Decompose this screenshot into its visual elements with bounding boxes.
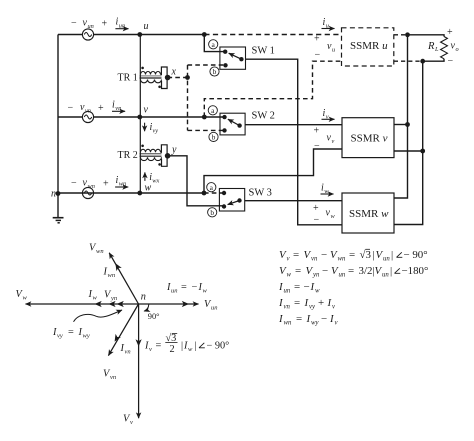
svg-text:−: − <box>322 265 328 277</box>
svg-text:R: R <box>427 41 435 52</box>
svg-text:w: w <box>315 288 320 295</box>
svg-text:√3: √3 <box>360 249 372 261</box>
svg-text:−: − <box>71 18 77 29</box>
transformer TR2 <box>140 117 168 193</box>
svg-text:vn: vn <box>284 304 291 311</box>
svg-text:un: un <box>171 288 178 295</box>
wire SW1 out to SSMR w minus <box>246 59 343 225</box>
svg-text:wx: wx <box>152 178 159 185</box>
svg-text:−180°: −180° <box>402 265 429 277</box>
ac source v_wn <box>82 187 93 198</box>
arrow i_un <box>115 28 128 30</box>
svg-text:n: n <box>141 292 146 303</box>
svg-text:+: + <box>102 19 108 30</box>
wire SSMR v out plus <box>394 124 408 126</box>
svg-text:+: + <box>314 126 320 137</box>
svg-text:un: un <box>88 23 94 30</box>
svg-text:w: w <box>23 295 28 302</box>
phasor labels <box>16 243 230 427</box>
svg-text:−: − <box>314 215 320 226</box>
svg-text:=: = <box>294 297 300 309</box>
eq line 5 <box>278 313 339 327</box>
svg-text:u: u <box>332 47 335 54</box>
wire left bus <box>57 35 59 194</box>
svg-text:L: L <box>434 46 439 53</box>
svg-text:wn: wn <box>88 183 95 190</box>
svg-text:wn: wn <box>108 272 116 279</box>
wire w row dashed stub to SW3 a <box>204 192 224 194</box>
arrowhead I_vn mid <box>112 334 121 343</box>
svg-text:v: v <box>130 419 133 426</box>
svg-text:w: w <box>287 272 292 279</box>
wire tap y to SW3 b <box>168 156 225 206</box>
wire SW3 out to SSMR w plus <box>245 200 342 202</box>
svg-text:SW 1: SW 1 <box>252 46 275 57</box>
svg-text:un: un <box>382 272 389 279</box>
svg-text:|: | <box>390 265 392 277</box>
svg-text:−: − <box>315 50 321 61</box>
resistor R_L load <box>408 35 448 61</box>
arrow i_vn <box>112 110 125 112</box>
svg-text:un: un <box>119 22 125 29</box>
arrowheads I_w and V_yn on left axis <box>95 301 102 307</box>
vector V_w left <box>26 303 139 305</box>
svg-text:un: un <box>284 288 291 295</box>
svg-text:wy: wy <box>311 320 320 327</box>
svg-text:vy: vy <box>57 333 63 340</box>
svg-text:wn: wn <box>338 256 347 263</box>
svg-text:v: v <box>332 138 335 145</box>
svg-text:vn: vn <box>85 107 91 114</box>
SSMR v box <box>342 118 394 158</box>
wire dashed x to SW1 b <box>188 64 226 66</box>
svg-text:wn: wn <box>119 181 126 188</box>
svg-text:TR 2: TR 2 <box>118 150 138 161</box>
svg-text:n: n <box>51 189 56 200</box>
svg-text:vn: vn <box>115 105 121 112</box>
vector V_wn up-left <box>109 253 138 304</box>
svg-text:v: v <box>326 114 329 121</box>
svg-text:SSMR w: SSMR w <box>349 208 389 220</box>
sqrt overbars <box>366 248 371 250</box>
svg-text:− 90°: − 90° <box>404 249 428 261</box>
arrow i_wn <box>115 186 128 188</box>
current arrows <box>112 29 335 195</box>
svg-text:−: − <box>192 282 198 293</box>
svg-text:w: w <box>93 295 98 302</box>
SSMR u box dashed <box>342 28 394 66</box>
wire v row <box>58 116 225 118</box>
wire SW2 out to SSMR v plus <box>245 124 342 126</box>
svg-text:wy: wy <box>83 333 90 340</box>
svg-text:wn: wn <box>96 248 104 255</box>
eq line 1 <box>279 249 428 263</box>
switch SW2 <box>220 113 245 135</box>
svg-text:=: = <box>296 313 302 325</box>
squiggle arrow I_vy <box>74 310 123 322</box>
svg-text:+: + <box>98 103 104 114</box>
vector V_v down <box>138 304 140 418</box>
svg-text:u: u <box>144 21 149 32</box>
svg-text:−: − <box>448 56 454 67</box>
wire w row <box>58 192 204 194</box>
svg-text:+: + <box>447 27 453 38</box>
svg-text:− 90°: − 90° <box>207 341 230 352</box>
SW contact dots <box>223 50 227 54</box>
svg-text:+: + <box>314 34 320 45</box>
svg-text:un: un <box>211 305 218 312</box>
svg-text:un: un <box>339 272 346 279</box>
circuit text labels <box>51 17 459 226</box>
switch SW1 <box>220 47 246 69</box>
svg-text:u: u <box>326 23 329 30</box>
arc 90 deg <box>144 304 149 311</box>
svg-text:|: | <box>373 249 375 261</box>
svg-text:x: x <box>171 67 177 78</box>
TR polarity dots <box>141 67 144 70</box>
wire plus bus vertical <box>394 35 408 198</box>
eq line 2 <box>279 265 428 279</box>
svg-text:yn: yn <box>110 295 117 302</box>
svg-text:TR 1: TR 1 <box>118 72 138 83</box>
svg-text:b: b <box>212 133 216 142</box>
wire tap x dashed <box>168 77 188 79</box>
svg-text:SW 2: SW 2 <box>252 111 275 122</box>
arrowhead I_v mid <box>136 339 142 346</box>
wire u dashed to SSMR u <box>204 34 341 36</box>
SSMR w box <box>342 193 394 233</box>
svg-text:=: = <box>294 281 300 293</box>
svg-text:y: y <box>171 145 177 156</box>
wire u node to SW1 a <box>204 35 225 52</box>
wire SSMR v out minus <box>394 150 423 152</box>
angle symbols eq 1,2 <box>397 252 403 257</box>
svg-text:un: un <box>383 256 390 263</box>
svg-text:+: + <box>103 179 109 190</box>
arrowhead on V_un mid <box>182 301 189 307</box>
svg-text:=: = <box>156 341 162 352</box>
svg-text:SW 3: SW 3 <box>249 188 272 199</box>
svg-text:w: w <box>203 288 208 295</box>
wire dashed SSMR u out plus <box>394 34 408 36</box>
wire dashed x-net vertical <box>187 65 189 130</box>
svg-text:|: | <box>195 341 197 352</box>
svg-text:w: w <box>145 182 152 193</box>
svg-text:vn: vn <box>311 256 318 263</box>
svg-text:v: v <box>149 346 152 353</box>
svg-text:2: 2 <box>170 344 175 355</box>
svg-text:=: = <box>181 282 187 293</box>
wire w node up to SSMR v minus <box>204 149 342 193</box>
svg-text:−: − <box>68 103 74 114</box>
ground <box>53 194 64 223</box>
angle symbol in I_v equation <box>199 343 205 348</box>
svg-text:=: = <box>293 249 299 261</box>
arrow i_w <box>321 193 334 195</box>
ac source v_un <box>82 29 93 40</box>
svg-text:−: − <box>321 249 327 261</box>
wire u row <box>58 34 204 36</box>
vector V_un right <box>139 303 199 305</box>
svg-text:−: − <box>304 281 310 293</box>
label a circled SW1 <box>207 40 219 217</box>
mid arrowheads on phasor lines <box>95 262 190 347</box>
svg-text:vn: vn <box>125 349 131 356</box>
svg-text:wn: wn <box>284 320 293 327</box>
svg-text:=: = <box>295 265 301 277</box>
wire dashed x to SW2 b <box>188 129 225 131</box>
switch SW3 <box>219 189 244 212</box>
svg-text:=: = <box>349 249 355 261</box>
svg-text:3/2|: 3/2| <box>359 265 375 277</box>
svg-text:=: = <box>348 265 354 277</box>
wire dashed SSMR u out minus <box>394 60 423 62</box>
svg-text:SSMR v: SSMR v <box>351 133 388 145</box>
svg-text:90°: 90° <box>148 312 160 321</box>
svg-text:+: + <box>313 203 319 214</box>
transformer TR1 <box>140 35 168 118</box>
svg-text:−: − <box>321 313 327 325</box>
svg-text:yn: yn <box>312 272 320 279</box>
fraction bar for sqrt3/2 <box>165 342 177 344</box>
svg-text:+: + <box>318 297 324 309</box>
svg-text:b: b <box>210 208 214 217</box>
arrow i_wx up <box>144 172 146 181</box>
svg-text:vy: vy <box>153 127 159 134</box>
svg-text:−: − <box>71 178 77 189</box>
wire dashed v node to SSMR u minus <box>204 61 341 117</box>
arrow i_u <box>322 28 335 30</box>
vector V_vn down-left <box>108 304 138 356</box>
svg-text:vn: vn <box>110 374 116 381</box>
svg-text:SSMR u: SSMR u <box>350 40 388 52</box>
svg-text:b: b <box>213 67 217 76</box>
ac source v_vn <box>82 111 93 122</box>
svg-text:=: = <box>68 327 74 338</box>
svg-text:w: w <box>188 346 193 353</box>
arrowhead I_wn mid <box>113 262 122 271</box>
wire minus bus vertical <box>394 61 423 224</box>
svg-text:vy: vy <box>309 304 316 311</box>
svg-text:−: − <box>314 141 320 152</box>
svg-text:|: | <box>391 249 393 261</box>
svg-text:|: | <box>181 341 183 352</box>
eq line 3 <box>278 281 320 295</box>
svg-text:o: o <box>456 46 459 53</box>
arrow i_vy down <box>144 123 146 132</box>
arrow i_v <box>322 118 335 120</box>
svg-text:v: v <box>144 105 149 116</box>
eq line 4 <box>278 297 336 311</box>
